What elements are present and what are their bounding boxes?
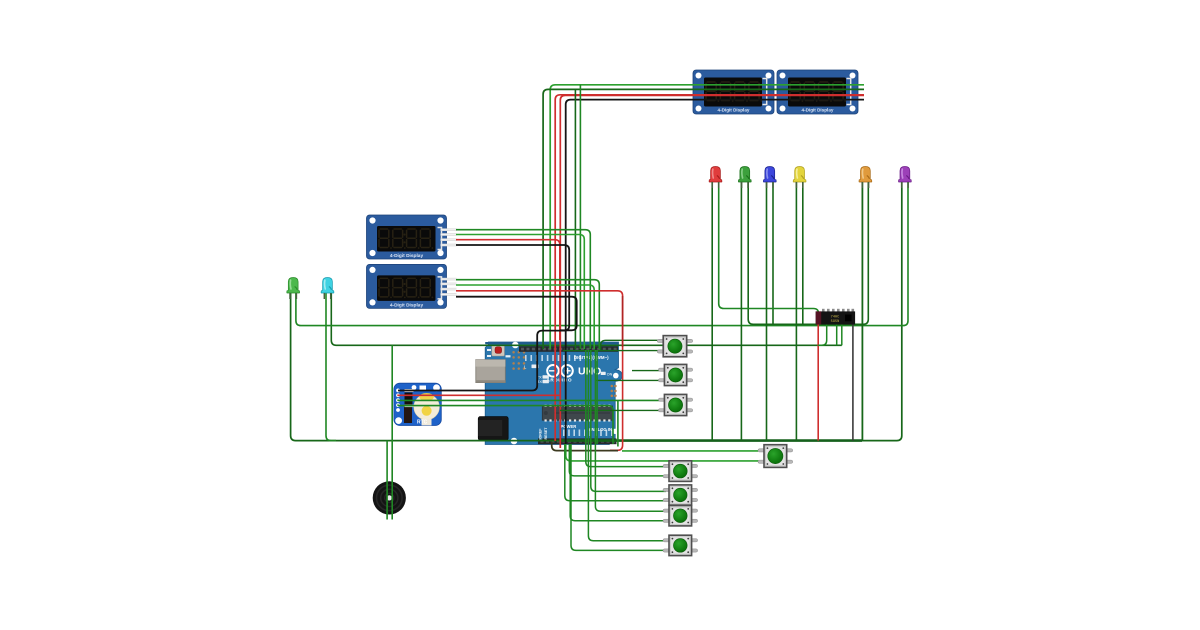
svg-text:ARDUINO: ARDUINO xyxy=(547,378,573,383)
wire: buzzer left pin tap from rail xyxy=(386,441,388,520)
reset button xyxy=(492,345,505,356)
4-digit display D4 (left lower) xyxy=(367,264,457,308)
wire: yellow LED left leg xyxy=(795,172,797,441)
wire: left display1 black GND chain xyxy=(398,245,569,391)
bottom silk labels xyxy=(563,430,613,437)
wire: cyan LED right leg long run to IC area xyxy=(331,283,842,345)
wire: left display1 pin1 green xyxy=(456,230,590,349)
wire: IC dark down to rail xyxy=(852,325,854,441)
pushbutton T3 xyxy=(658,394,692,415)
svg-text:4-Digit Display: 4-Digit Display xyxy=(390,253,424,259)
wire: button T1 top pin xyxy=(601,340,663,350)
wire: button B1 bottom pin wire xyxy=(569,444,666,476)
svg-text:IOREF: IOREF xyxy=(539,428,543,440)
wire: green LED left leg xyxy=(740,172,742,441)
svg-text:595N: 595N xyxy=(831,320,840,324)
flower logo + top white bits xyxy=(412,385,417,390)
wire: ground rail from left green LED to purple LED xyxy=(291,172,902,441)
wire: button B3 bottom pin wire xyxy=(570,444,666,521)
wire: button B4 top pin wire xyxy=(588,350,666,541)
wire: harness red VCC 1 xyxy=(555,95,864,441)
wire: left display1 pin2 green xyxy=(456,235,584,350)
4-digit display D2 (top-right of pair) xyxy=(777,70,858,114)
svg-text:4-Digit Display: 4-Digit Display xyxy=(718,108,750,113)
wire: harness bright green CLK to top displays xyxy=(550,85,864,349)
wire: IC red down to rail xyxy=(817,325,819,441)
wire: harness black GND xyxy=(566,100,864,444)
svg-text:DIGITAL (PWM~): DIGITAL (PWM~) xyxy=(574,355,609,360)
ATmega chip xyxy=(542,405,612,422)
pushbutton T2 xyxy=(658,364,692,385)
svg-text:ANALOG IN: ANALOG IN xyxy=(589,427,613,432)
LED red xyxy=(709,167,722,189)
piezo buzzer xyxy=(373,481,406,514)
wire: yellow LED right leg tap xyxy=(802,172,804,324)
wire: harness dark green DIO xyxy=(543,89,864,349)
wire: rail thick overlay segment xyxy=(560,439,862,442)
wire: button B2 bottom pin wire xyxy=(565,444,666,501)
wire: cyan LED left leg to rail xyxy=(326,283,336,441)
wire: display2 DIO riser xyxy=(574,89,576,349)
wire: RTC red 5V xyxy=(398,394,560,396)
LED orange xyxy=(859,167,872,189)
wire: button B2 top pin wire xyxy=(591,350,666,491)
wire: button B1 top pin wire xyxy=(586,350,666,467)
RTC breakout board (DS1307) xyxy=(394,383,441,425)
svg-text:4-Digit Display: 4-Digit Display xyxy=(802,108,834,113)
svg-text:POWER: POWER xyxy=(561,424,577,429)
wire: button T1 bottom pin xyxy=(563,350,663,352)
ICSP 2x3 golden xyxy=(611,385,617,397)
wire: left display1 red xyxy=(456,240,560,340)
Arduino UNO board xyxy=(476,342,622,445)
IC 74HC chip xyxy=(816,309,855,325)
wire: green LED right leg to orange LED right leg xyxy=(748,172,868,324)
power jack xyxy=(478,417,508,441)
L led xyxy=(532,365,539,369)
LED blue xyxy=(763,167,776,189)
wire: green to lone button top pin xyxy=(622,450,758,452)
wire: SCL corner down at board right xyxy=(617,400,619,446)
pushbutton B3 xyxy=(663,506,698,526)
wire: red LED left leg xyxy=(711,172,713,441)
pushbutton B1 xyxy=(663,461,698,482)
wire: green to lone button bottom pin xyxy=(566,444,759,461)
wire: harness red VCC 2 xyxy=(560,95,864,448)
silk labels under top header xyxy=(525,355,597,361)
wire: left display2 green2 xyxy=(456,285,594,349)
svg-text:RTC: RTC xyxy=(417,420,428,426)
wire: red side wire xyxy=(622,296,624,347)
wire: blue LED left leg xyxy=(766,172,768,441)
4-digit display D1 (top-left of pair) xyxy=(693,70,774,114)
wire: left green LED right leg to purple LED right leg xyxy=(296,172,908,326)
battery holder xyxy=(414,394,439,419)
svg-text:ON: ON xyxy=(607,373,613,377)
pushbutton lone xyxy=(758,445,793,468)
wire: buzzer right pin tap xyxy=(391,345,393,519)
svg-text:RESET: RESET xyxy=(544,427,548,440)
wire: GND black to corner segment xyxy=(552,442,618,451)
wire: jumper green xyxy=(596,350,598,444)
ON led xyxy=(601,372,606,375)
wire: left display2 red long to right xyxy=(456,291,623,451)
ICs xyxy=(405,393,413,406)
mounting hole top xyxy=(512,342,519,349)
LED green xyxy=(738,167,751,189)
wire: IC green stub 1 xyxy=(818,325,827,346)
svg-text:4-Digit Display: 4-Digit Display xyxy=(390,302,424,308)
wire: left display2 green1 xyxy=(456,280,599,349)
wire: button B3 top pin wire xyxy=(595,350,666,511)
wire: display2 CLK riser xyxy=(579,85,581,349)
wire: button B4 bottom pin wire xyxy=(571,444,666,550)
wire: IC green stub 2 xyxy=(836,325,838,346)
wire: display2-black elbow xyxy=(456,297,577,331)
LED left green xyxy=(287,278,300,300)
wire: button T3 bottom pin xyxy=(560,409,664,411)
LED yellow xyxy=(793,167,806,189)
top pin header xyxy=(519,346,618,352)
infinity logo xyxy=(547,365,573,377)
LED purple xyxy=(899,167,912,189)
wire: red LED right leg to IC pin 1 xyxy=(719,172,819,315)
bottom header xyxy=(538,438,617,444)
svg-text:74HC: 74HC xyxy=(831,315,840,319)
pushbutton T1 xyxy=(657,336,693,357)
wire: button T2 bottom pin xyxy=(595,379,664,381)
wire: RTC green SDA long to button C xyxy=(398,399,664,401)
pushbutton B4 xyxy=(663,535,698,555)
golden ICSP2 pins top-left xyxy=(512,351,525,370)
pushbutton B2 xyxy=(663,485,698,505)
4-digit display D3 (left upper) xyxy=(367,215,457,259)
usb connector xyxy=(476,360,506,383)
wire: orange LED left leg xyxy=(861,172,863,441)
wire: blue LED right leg tap xyxy=(772,172,774,324)
wire: RTC green SCL xyxy=(398,406,613,444)
wire: IC green stub 3 xyxy=(841,325,843,346)
LED left cyan xyxy=(321,278,334,300)
wire: button T2 top pin xyxy=(632,370,664,372)
